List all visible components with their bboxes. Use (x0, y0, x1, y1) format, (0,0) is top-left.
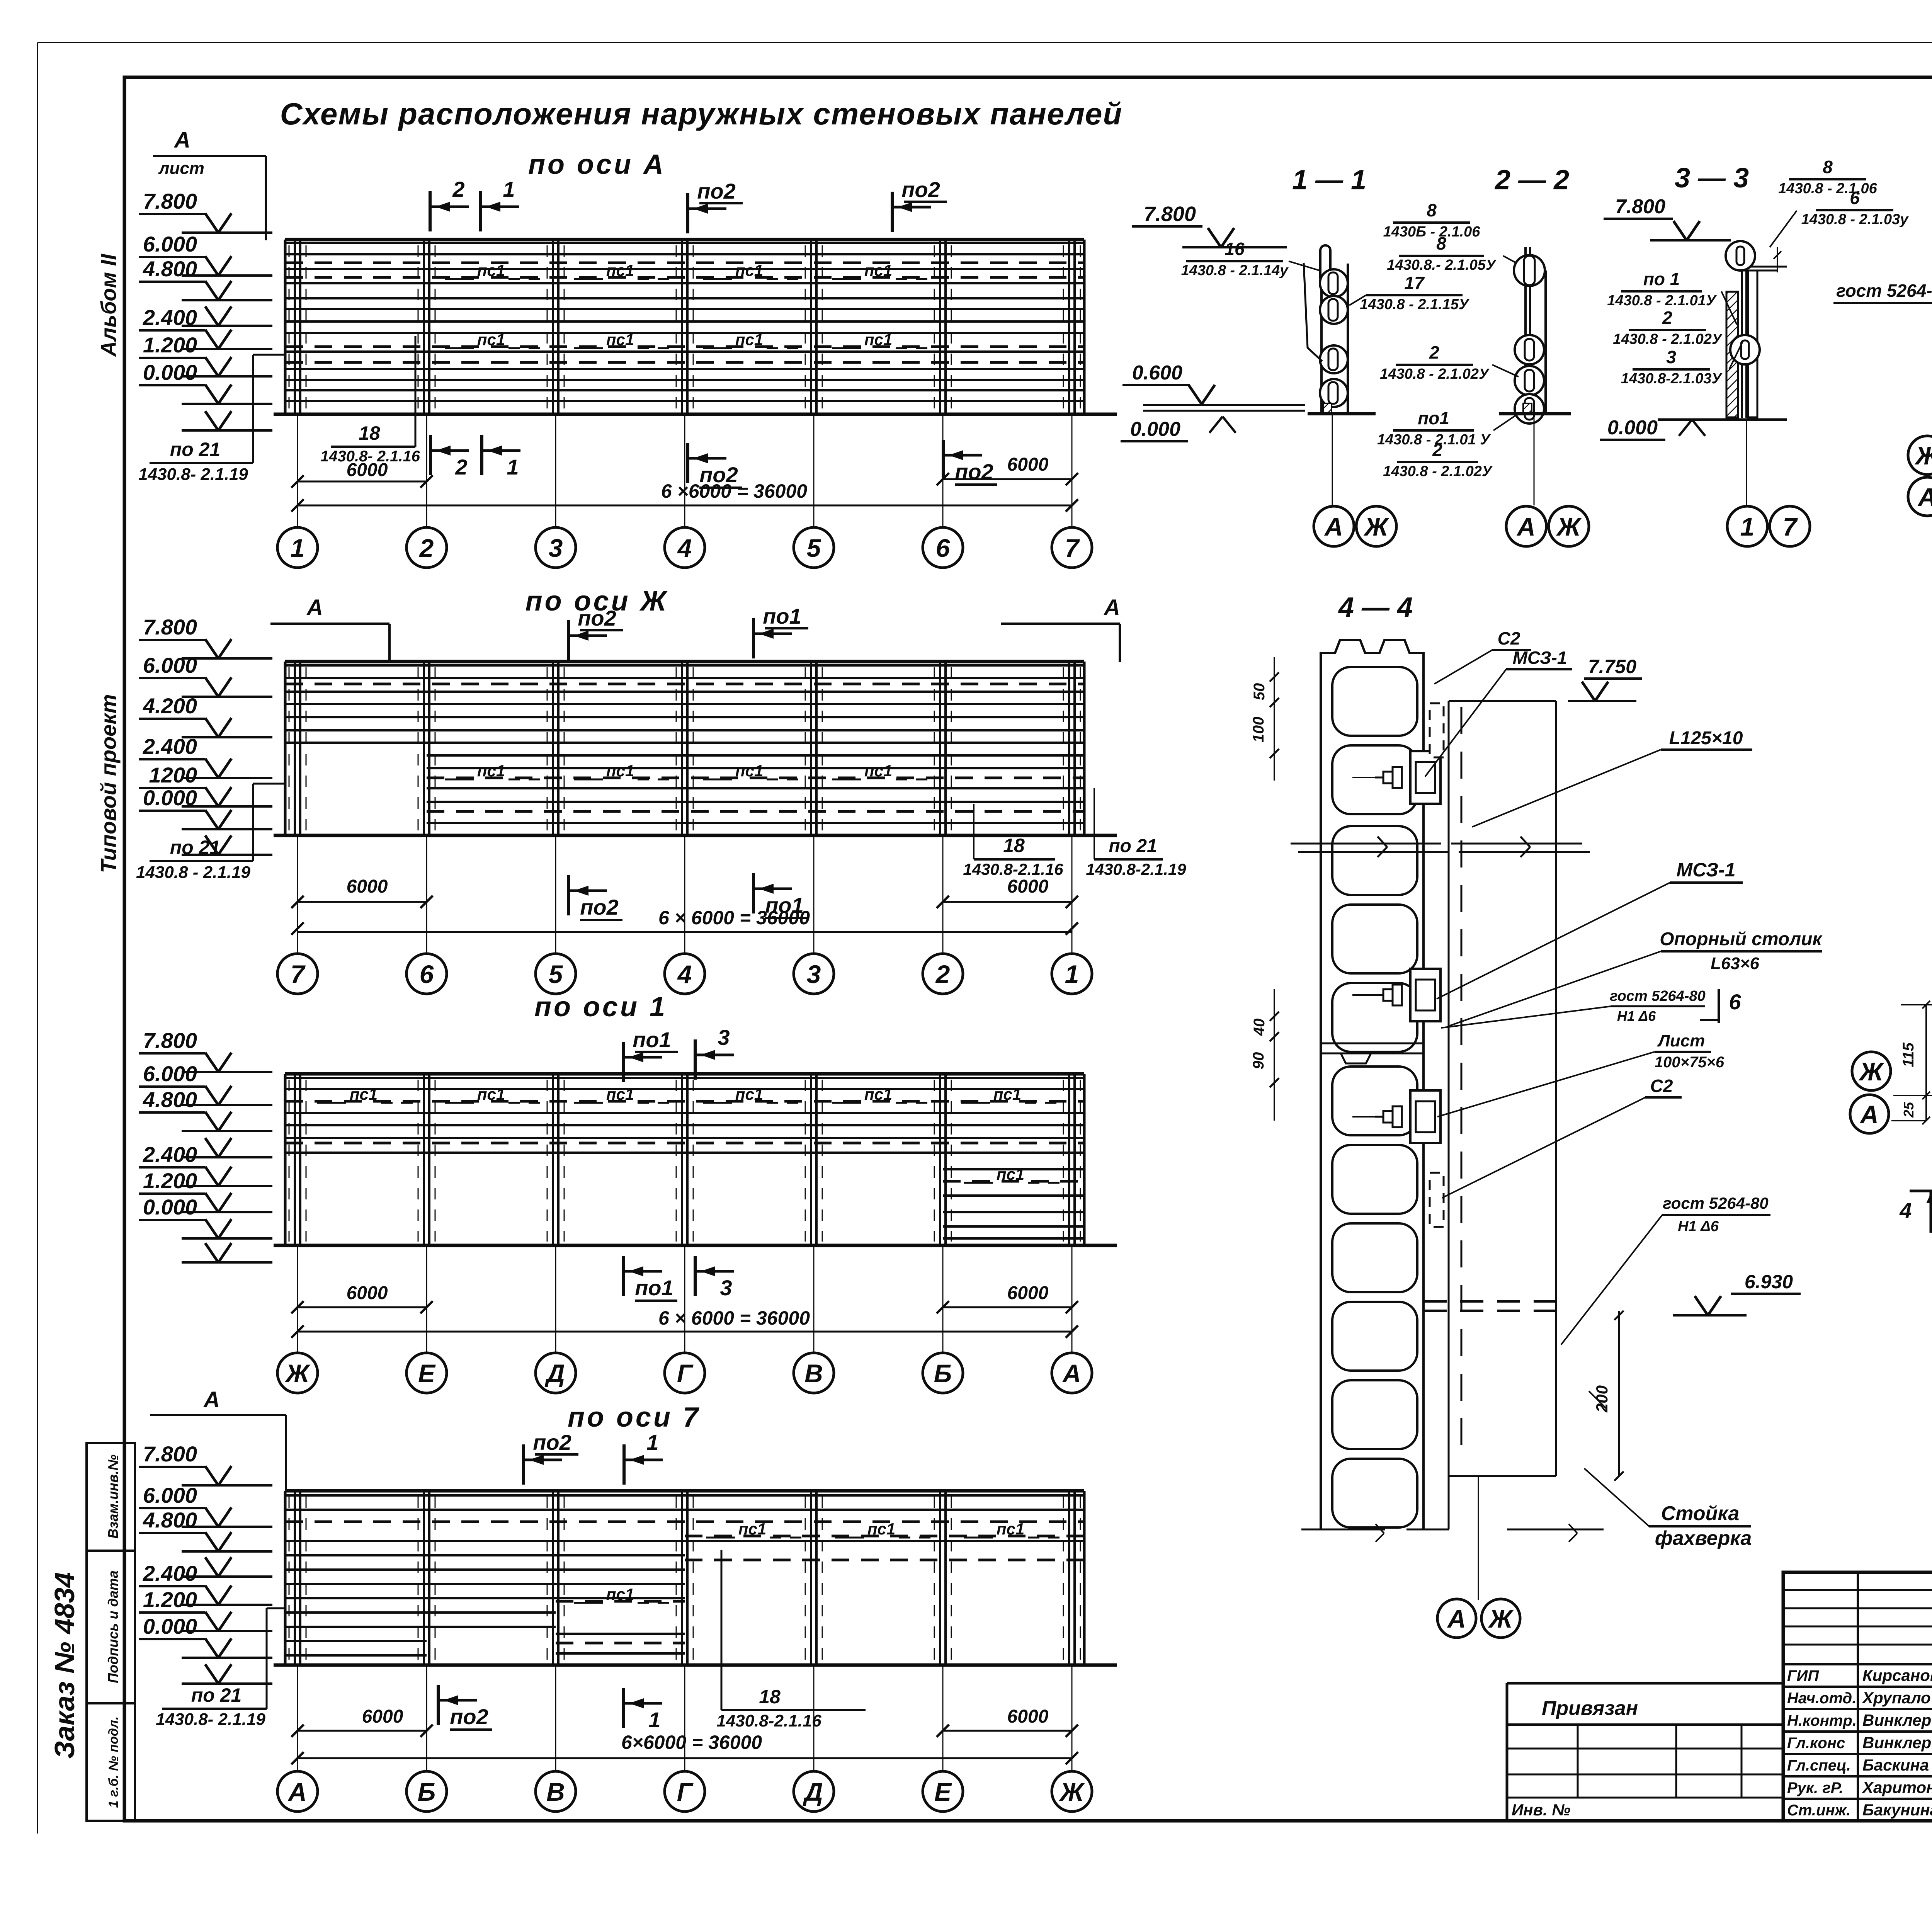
svg-text:4: 4 (677, 534, 692, 562)
svg-text:1 — 1: 1 — 1 (1292, 165, 1366, 196)
section 4-4: horizontal panel joint (1321, 1043, 1423, 1044)
elevation по оси 1: section cut marks below (622, 1256, 625, 1296)
section 2-2: axis line and circles (1534, 414, 1535, 505)
svg-text:пс1: пс1 (867, 1520, 895, 1538)
axis circles row (277, 954, 1092, 994)
svg-text:2.400: 2.400 (143, 1561, 197, 1585)
section 1-1: axis circle Ж (1356, 506, 1396, 546)
svg-text:по оси 1: по оси 1 (534, 992, 667, 1022)
svg-text:Альбом II: Альбом II (96, 253, 121, 357)
section 2-2: hatched base plate (1523, 403, 1532, 413)
svg-text:0.000: 0.000 (143, 360, 197, 384)
svg-text:4 — 4: 4 — 4 (1338, 592, 1413, 623)
section 4-4: bolt assemblies МСЗ-1 (1410, 751, 1440, 804)
section 3-3: wall panel edge lines (1741, 245, 1743, 418)
column verticals at axes (285, 662, 1084, 835)
svg-text:2.400: 2.400 (143, 305, 197, 330)
svg-text:А: А (1062, 1359, 1081, 1388)
paper left edge (37, 43, 38, 1834)
svg-text:6.000: 6.000 (143, 653, 197, 677)
svg-text:6000: 6000 (1007, 876, 1049, 897)
svg-text:7: 7 (1065, 534, 1080, 562)
section 4-4: fachwerk column strip (1448, 701, 1450, 1529)
svg-text:3: 3 (718, 1025, 730, 1050)
axis extension lines down to axis circles (298, 1665, 1072, 1771)
svg-text:1430.8 - 2.1.06: 1430.8 - 2.1.06 (1778, 180, 1878, 197)
section 4-4: wall panel outline with castellated top (1321, 640, 1423, 662)
svg-text:Привязан: Привязан (1542, 1697, 1638, 1720)
svg-text:1430.8 - 2.1.15У: 1430.8 - 2.1.15У (1360, 296, 1470, 313)
svg-text:6 ×6000 = 36000: 6 ×6000 = 36000 (661, 480, 807, 502)
svg-text:Лист: Лист (1657, 1031, 1705, 1050)
svg-text:1: 1 (1740, 512, 1755, 541)
svg-text:Н.контр.: Н.контр. (1787, 1712, 1857, 1729)
section 1-1: hatched base plate (1323, 403, 1332, 413)
svg-text:Ж: Ж (1488, 1604, 1514, 1633)
svg-text:пс1: пс1 (993, 1085, 1021, 1103)
section 4-4: left vertical dimension chain 50/100 and 40/90 (1274, 657, 1275, 781)
svg-text:8: 8 (1823, 157, 1833, 177)
svg-text:2.400: 2.400 (143, 734, 197, 759)
section 3-3: axis line and circles 1 7 (1746, 420, 1747, 505)
section 2-2: wall panel edge lines (1524, 247, 1527, 413)
svg-text:А: А (1447, 1604, 1466, 1633)
svg-text:6×6000 = 36000: 6×6000 = 36000 (621, 1732, 762, 1753)
svg-text:6000: 6000 (347, 876, 388, 897)
svg-text:25: 25 (1901, 1102, 1917, 1118)
svg-text:1430.8- 2.1.19: 1430.8- 2.1.19 (156, 1710, 265, 1729)
svg-text:1430.8 - 2.1.03у: 1430.8 - 2.1.03у (1801, 211, 1909, 228)
svg-text:по 1: по 1 (1643, 269, 1680, 289)
svg-text:фахверка: фахверка (1655, 1527, 1752, 1550)
ground line (274, 834, 1117, 837)
svg-text:4: 4 (1899, 1198, 1912, 1223)
svg-text:по2: по2 (697, 179, 736, 203)
svg-text:пс1: пс1 (735, 762, 763, 780)
section 4-4: hollow core cells (1332, 667, 1417, 1527)
svg-text:6000: 6000 (1007, 1706, 1049, 1727)
svg-text:1430.8-2.1.16: 1430.8-2.1.16 (963, 860, 1063, 878)
svg-text:1430.8- 2.1.19: 1430.8- 2.1.19 (138, 465, 248, 484)
wall panel grid horizontal joints (285, 662, 1084, 823)
svg-text:4.200: 4.200 (143, 694, 197, 718)
svg-text:18: 18 (359, 422, 380, 444)
column verticals at axes (285, 1074, 1084, 1245)
svg-text:3: 3 (549, 534, 563, 562)
svg-text:по1: по1 (1418, 408, 1449, 428)
svg-text:пс1: пс1 (864, 330, 892, 349)
svg-text:8: 8 (1436, 233, 1446, 253)
svg-text:1: 1 (648, 1708, 660, 1732)
section 2-2: fastener circles (1515, 335, 1544, 364)
svg-text:2 — 2: 2 — 2 (1494, 165, 1569, 196)
svg-text:Ж: Ж (1556, 512, 1582, 541)
svg-text:по оси А: по оси А (528, 149, 666, 180)
svg-text:1: 1 (1065, 960, 1079, 988)
elevation по оси Ж: section cut marks above (567, 620, 570, 660)
svg-text:0.000: 0.000 (1607, 417, 1658, 439)
section 5-5: dimension 115 and 25 (1925, 1005, 1927, 1121)
svg-text:Н1 Δ6: Н1 Δ6 (1617, 1008, 1656, 1024)
svg-text:по1: по1 (763, 604, 801, 628)
title block: Привязан grid (1577, 1725, 1579, 1798)
svg-text:Г: Г (677, 1778, 694, 1806)
svg-text:пс1: пс1 (735, 1085, 763, 1103)
section 2-2: top fastener (1514, 255, 1545, 286)
svg-text:гост 5264-80: гост 5264-80 (1663, 1194, 1769, 1212)
svg-text:3: 3 (807, 960, 821, 988)
section 5-5: axis lines horizontal (1893, 1095, 1932, 1096)
svg-text:1430.8 - 2.1.02У: 1430.8 - 2.1.02У (1380, 366, 1490, 382)
section 1-1: axis circle А (1314, 506, 1354, 546)
svg-text:1: 1 (646, 1430, 658, 1454)
svg-text:1430.8 - 2.1.02У: 1430.8 - 2.1.02У (1613, 331, 1723, 347)
svg-text:1430.8.- 2.1.05У: 1430.8.- 2.1.05У (1387, 257, 1497, 273)
svg-text:Заказ № 4834: Заказ № 4834 (49, 1572, 80, 1759)
svg-text:по2: по2 (578, 606, 616, 630)
svg-text:пс1: пс1 (606, 261, 634, 279)
svg-text:1200: 1200 (149, 763, 197, 787)
section 4-4: break lines (1291, 843, 1441, 845)
svg-text:Б: Б (418, 1778, 436, 1806)
ground line (274, 1664, 1117, 1667)
svg-text:5: 5 (807, 534, 821, 562)
svg-text:А: А (203, 1387, 220, 1412)
svg-text:пс1: пс1 (606, 1585, 634, 1603)
svg-text:7.800: 7.800 (143, 1442, 197, 1466)
svg-text:Гл.конс: Гл.конс (1787, 1735, 1845, 1752)
svg-text:0.000: 0.000 (1130, 418, 1180, 441)
section 2-2: column strip (1544, 270, 1547, 413)
svg-text:100×75×6: 100×75×6 (1655, 1054, 1725, 1071)
svg-text:6.000: 6.000 (143, 1483, 197, 1507)
svg-text:7: 7 (291, 960, 306, 988)
svg-text:1430.8-2.1.19: 1430.8-2.1.19 (1086, 860, 1186, 878)
svg-text:по2: по2 (901, 177, 940, 202)
svg-text:1430.8 - 2.1.14у: 1430.8 - 2.1.14у (1181, 262, 1289, 279)
title block signature names (1787, 1666, 1932, 1819)
svg-text:Бакунина: Бакунина (1862, 1801, 1932, 1819)
svg-text:6: 6 (1729, 990, 1741, 1014)
svg-text:4.800: 4.800 (143, 1508, 197, 1532)
svg-text:1.200: 1.200 (143, 333, 197, 357)
svg-text:по 21: по 21 (170, 837, 221, 858)
section 3-3: ground line and 0.000 (1658, 418, 1787, 421)
svg-text:ГИП: ГИП (1787, 1667, 1819, 1684)
axis circles row (277, 527, 1092, 568)
margin stamp boxes lower-left (87, 1443, 135, 1821)
svg-text:2: 2 (935, 960, 950, 988)
svg-text:18: 18 (1003, 835, 1025, 856)
svg-text:Ст.инж.: Ст.инж. (1787, 1802, 1850, 1819)
svg-text:4.800: 4.800 (143, 1087, 197, 1112)
svg-text:100: 100 (1250, 717, 1267, 743)
wall panel grid horizontal joints (285, 1074, 1084, 1238)
svg-text:пс1: пс1 (735, 330, 763, 349)
svg-text:Гл.спец.: Гл.спец. (1787, 1757, 1851, 1774)
elevation по оси 1: level marks (139, 1028, 272, 1262)
svg-text:2: 2 (419, 534, 434, 562)
svg-text:В: В (804, 1359, 823, 1388)
svg-text:Д: Д (803, 1778, 823, 1806)
svg-text:1430.8 - 2.1.19: 1430.8 - 2.1.19 (136, 863, 251, 882)
svg-text:пс1: пс1 (735, 261, 763, 279)
svg-text:16: 16 (1225, 239, 1245, 259)
svg-text:8: 8 (1427, 200, 1437, 220)
elevation по оси А: level marks (139, 189, 272, 430)
svg-text:гост 5264-80-Н1-Δ6: гост 5264-80-Н1-Δ6 (1836, 281, 1932, 301)
section 5-5: axis circles Ж А (1852, 1052, 1891, 1090)
svg-text:1 г.б. № подл.: 1 г.б. № подл. (106, 1716, 121, 1808)
svg-text:Нач.отд.: Нач.отд. (1787, 1690, 1856, 1707)
axis circles row (277, 1771, 1092, 1812)
svg-text:Баскина: Баскина (1862, 1756, 1929, 1774)
svg-text:пс1: пс1 (606, 330, 634, 349)
svg-text:Хрупало: Хрупало (1862, 1689, 1931, 1707)
panel marks пс1 (317, 1085, 1061, 1183)
svg-text:3: 3 (720, 1276, 732, 1300)
ground line (274, 413, 1117, 416)
svg-text:6000: 6000 (1007, 1283, 1049, 1303)
svg-text:по 21: по 21 (170, 439, 221, 460)
svg-text:по2: по2 (533, 1430, 571, 1454)
svg-text:Е: Е (934, 1778, 952, 1806)
svg-text:6.000: 6.000 (143, 232, 197, 256)
section 4-4: lower panel hidden edge 6.930 level (1423, 1300, 1556, 1303)
svg-text:L63×6: L63×6 (1711, 954, 1760, 973)
svg-text:1.200: 1.200 (143, 1169, 197, 1193)
title block outer frame (1783, 1572, 1932, 1821)
svg-text:5: 5 (549, 960, 563, 988)
section 4-4: ground break line (1301, 1529, 1385, 1531)
svg-text:пс1: пс1 (864, 261, 892, 279)
elevation по оси А: section cut marks above (429, 191, 432, 231)
svg-text:Н1 Δ6: Н1 Δ6 (1678, 1218, 1719, 1235)
section 3-3: roof lines (1742, 266, 1787, 268)
svg-text:лист: лист (158, 159, 204, 178)
svg-text:пс1: пс1 (606, 762, 634, 780)
svg-text:по 21: по 21 (191, 1684, 242, 1706)
axis extension lines down to axis circles (298, 1245, 1072, 1353)
svg-text:Взам.инв.№: Взам.инв.№ (105, 1454, 121, 1539)
column verticals at axes (285, 1491, 1084, 1665)
axis circles row (277, 1353, 1092, 1393)
svg-text:А: А (173, 128, 190, 153)
svg-text:Ж: Ж (1059, 1778, 1085, 1806)
svg-text:6.930: 6.930 (1745, 1271, 1793, 1293)
section 5-5: section marks 4 (1910, 1190, 1932, 1192)
svg-text:3 — 3: 3 — 3 (1675, 163, 1749, 194)
svg-text:4: 4 (677, 960, 692, 988)
svg-text:6000: 6000 (347, 1283, 388, 1303)
elevation по оси Ж: level marks (139, 615, 272, 855)
svg-text:7.800: 7.800 (143, 189, 197, 213)
svg-text:Е: Е (418, 1359, 436, 1388)
svg-text:по2: по2 (955, 459, 993, 484)
title block: Привязан box (1507, 1682, 1783, 1685)
svg-text:пс1: пс1 (738, 1520, 766, 1538)
svg-text:пс1: пс1 (477, 1085, 505, 1103)
svg-text:1430.8-2.1.16: 1430.8-2.1.16 (716, 1711, 821, 1730)
svg-text:Б: Б (934, 1359, 952, 1388)
svg-text:0.000: 0.000 (143, 786, 197, 810)
elevation по оси 7: section cut marks below (437, 1685, 440, 1725)
panel marks пс1 (445, 762, 929, 780)
svg-text:2: 2 (452, 177, 464, 201)
svg-text:Ж: Ж (1363, 512, 1389, 541)
svg-text:по1: по1 (633, 1027, 671, 1052)
svg-text:Рук. гР.: Рук. гР. (1787, 1779, 1844, 1796)
svg-text:6 × 6000 = 36000: 6 × 6000 = 36000 (658, 1307, 810, 1329)
elevation по оси 7: level marks (139, 1442, 272, 1684)
svg-text:пс1: пс1 (606, 1085, 634, 1103)
svg-text:В: В (546, 1778, 565, 1806)
section 4-4: dimension 200 (1618, 1311, 1620, 1476)
svg-text:пс1: пс1 (477, 330, 505, 349)
svg-text:115: 115 (1900, 1042, 1917, 1067)
svg-text:Кирсанов: Кирсанов (1862, 1666, 1932, 1684)
svg-text:17: 17 (1404, 273, 1425, 293)
section 1-1: bracket leader around fasteners (1304, 263, 1322, 361)
svg-text:2.400: 2.400 (143, 1142, 197, 1167)
section 2-2: ground line (1499, 412, 1571, 415)
svg-text:2: 2 (1432, 440, 1442, 460)
svg-text:Ж: Ж (1914, 441, 1932, 470)
svg-text:6: 6 (1850, 188, 1860, 208)
svg-text:А: А (1103, 595, 1120, 620)
svg-text:1: 1 (291, 534, 305, 562)
title block signature table blank rows (1783, 1589, 1932, 1591)
svg-text:по оси 7: по оси 7 (568, 1402, 701, 1433)
svg-text:Винклер: Винклер (1862, 1733, 1931, 1752)
section 1-1: fastener circles chain (1320, 269, 1348, 297)
detail A: axis circles Ж and А left (1908, 436, 1932, 475)
svg-text:90: 90 (1250, 1052, 1267, 1070)
svg-text:Схемы расположения наружны: Схемы расположения наружных стеновых пан… (280, 97, 1123, 131)
svg-text:МСЗ-1: МСЗ-1 (1513, 648, 1567, 668)
column verticals at axes (285, 240, 1084, 414)
wall panel grid horizontal joints (285, 1491, 1084, 1655)
svg-text:1430Б - 2.1.06: 1430Б - 2.1.06 (1383, 224, 1481, 240)
elevation по оси 1: section cut marks above (622, 1042, 625, 1082)
axis extension lines down to axis circles (298, 414, 1072, 527)
svg-text:Харитонов: Харитонов (1862, 1778, 1932, 1796)
title block signature rows (1783, 1663, 1932, 1665)
svg-text:Ж: Ж (1858, 1057, 1884, 1086)
svg-text:Г: Г (677, 1359, 694, 1388)
svg-text:7.800: 7.800 (1615, 196, 1665, 218)
svg-text:по 21: по 21 (1109, 836, 1157, 856)
svg-text:Типовой проект: Типовой проект (96, 694, 121, 873)
svg-text:7: 7 (1783, 512, 1798, 541)
svg-text:2: 2 (1429, 342, 1439, 362)
svg-text:Стойка: Стойка (1661, 1502, 1740, 1525)
section 3-3: wall hatched strip (1726, 292, 1738, 417)
svg-text:пс1: пс1 (864, 762, 892, 780)
svg-text:С2: С2 (1498, 628, 1520, 648)
svg-text:0.000: 0.000 (143, 1195, 197, 1219)
svg-text:6.000: 6.000 (143, 1061, 197, 1086)
title block signature table verticals (1857, 1572, 1859, 1821)
svg-text:7.800: 7.800 (1144, 202, 1196, 226)
svg-text:А: А (1324, 512, 1343, 541)
svg-text:L125×10: L125×10 (1669, 728, 1743, 748)
svg-text:пс1: пс1 (477, 762, 505, 780)
svg-text:7.800: 7.800 (143, 615, 197, 639)
svg-text:2: 2 (455, 455, 467, 479)
svg-text:4.800: 4.800 (143, 257, 197, 281)
svg-text:С2: С2 (1650, 1076, 1673, 1096)
svg-text:Винклер: Винклер (1862, 1711, 1931, 1729)
svg-text:1: 1 (503, 177, 515, 201)
svg-text:МСЗ-1: МСЗ-1 (1676, 859, 1735, 881)
svg-text:18: 18 (759, 1686, 781, 1708)
panel marks пс1 (574, 1520, 1061, 1603)
svg-text:6: 6 (936, 534, 951, 562)
paper top edge (37, 42, 1932, 43)
elevation по оси А: section cut marks below (429, 435, 432, 475)
section 3-3: fastener circles (1726, 241, 1755, 270)
svg-text:Подпись и дата: Подпись и дата (105, 1570, 121, 1683)
section 1-1: connection pin item 16 (1320, 245, 1330, 283)
svg-text:пс1: пс1 (997, 1165, 1024, 1183)
svg-text:пс1: пс1 (864, 1085, 892, 1103)
svg-text:7.750: 7.750 (1588, 656, 1636, 677)
section 1-1: wall panel edge lines (1320, 247, 1323, 413)
svg-text:1430.8 - 2.1.01У: 1430.8 - 2.1.01У (1607, 293, 1717, 309)
wall panel grid horizontal joints (285, 240, 1084, 401)
svg-text:Д: Д (544, 1359, 565, 1388)
section 4-4: С2 rects dashed (1430, 703, 1444, 757)
svg-text:гост 5264-80: гост 5264-80 (1610, 988, 1705, 1004)
svg-text:А: А (306, 595, 323, 620)
svg-text:6: 6 (420, 960, 434, 988)
svg-text:А: А (287, 1778, 307, 1806)
svg-text:1.200: 1.200 (143, 1587, 197, 1612)
svg-text:0.600: 0.600 (1132, 362, 1182, 384)
svg-text:1430.8-2.1.03У: 1430.8-2.1.03У (1621, 371, 1723, 387)
section 1-1: ground line (1308, 412, 1376, 415)
elevation по оси Ж: section cut marks below (567, 875, 570, 915)
svg-text:пс1: пс1 (997, 1520, 1024, 1538)
svg-text:по1: по1 (635, 1276, 673, 1300)
svg-text:А: А (1917, 483, 1932, 511)
svg-text:2: 2 (1662, 308, 1672, 328)
svg-text:по2: по2 (580, 895, 619, 919)
svg-text:3: 3 (1666, 347, 1676, 367)
svg-text:50: 50 (1251, 683, 1268, 701)
svg-text:40: 40 (1251, 1019, 1268, 1036)
elevation по оси 7: section cut marks above (522, 1444, 525, 1485)
svg-text:6000: 6000 (362, 1706, 403, 1727)
axis extension lines down to axis circles (298, 835, 1072, 954)
svg-text:пс1: пс1 (350, 1085, 378, 1103)
svg-text:0.000: 0.000 (143, 1614, 197, 1638)
section 3-3: right bar (1748, 270, 1757, 417)
svg-text:пс1: пс1 (477, 261, 505, 279)
svg-text:6000: 6000 (347, 460, 388, 480)
svg-text:А: А (1516, 512, 1536, 541)
svg-text:200: 200 (1593, 1385, 1611, 1413)
svg-text:1: 1 (507, 455, 519, 479)
svg-text:7.800: 7.800 (143, 1028, 197, 1053)
svg-text:Ж: Ж (284, 1359, 311, 1388)
panel marks пс1 (445, 261, 929, 349)
svg-text:А: А (1859, 1100, 1879, 1129)
svg-text:по2: по2 (450, 1704, 488, 1729)
svg-text:Инв. №: Инв. № (1512, 1801, 1570, 1819)
svg-text:6 × 6000 = 36000: 6 × 6000 = 36000 (658, 907, 810, 929)
